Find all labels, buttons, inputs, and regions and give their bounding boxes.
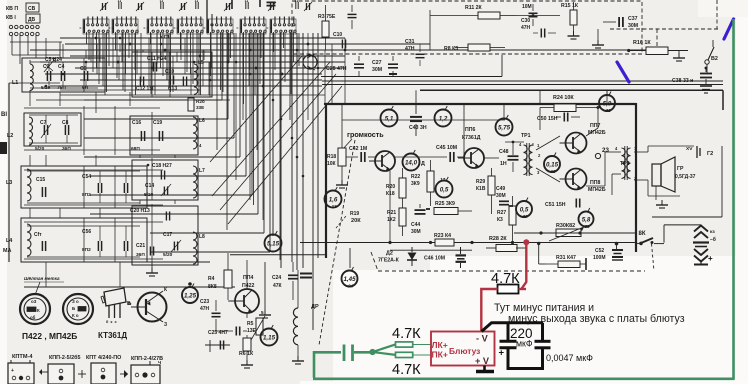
stray wire top of packages — [205, 344, 230, 346]
wires in dashed box — [430, 15, 460, 17]
wires to speaker — [634, 151, 648, 153]
svg-text:К о: К о — [72, 313, 79, 318]
red wire from R28 node — [522, 242, 527, 289]
svg-text:L3: L3 — [6, 180, 12, 186]
transistor symbol KT361D — [138, 293, 167, 322]
svg-text:3К9: 3К9 — [411, 181, 420, 187]
green resistor bottom 4.7K — [396, 352, 413, 357]
svg-text:КВ I: КВ I — [6, 15, 16, 21]
lower rail y255 extension — [230, 254, 326, 256]
measurement circle 1.2 — [435, 110, 452, 127]
svg-text:КПТ 4/240-ПО: КПТ 4/240-ПО — [86, 355, 121, 361]
svg-text:Ч: Ч — [158, 360, 161, 365]
svg-text:11: 11 — [160, 0, 164, 3]
measurement circle 5.8/25 — [579, 212, 594, 227]
svg-text:+: + — [11, 368, 14, 374]
svg-text:19: 19 — [550, 169, 556, 174]
svg-text:47Н: 47Н — [405, 46, 415, 52]
transistor PP6 — [464, 148, 484, 168]
bottom wire of RF section — [21, 261, 210, 263]
junction dots on buses — [95, 37, 98, 40]
electrolytic cap 220uF plates — [500, 340, 517, 343]
svg-text:20К: 20К — [351, 218, 361, 224]
svg-text:R11 2К: R11 2К — [465, 5, 483, 11]
svg-text:11: 11 — [195, 0, 199, 3]
svg-text:С4: С4 — [58, 64, 65, 70]
dashed lower border — [378, 270, 645, 272]
svg-text:С16: С16 — [132, 120, 141, 126]
measurement circle 0.5/20 — [516, 201, 532, 217]
svg-text:R6 1К: R6 1К — [239, 351, 254, 357]
wire bus to R31 — [537, 242, 540, 245]
wire y250 below box — [390, 249, 472, 251]
green lead bottom resistor to board — [413, 354, 431, 356]
capacitor C29 — [348, 13, 357, 15]
svg-text:С54: С54 — [82, 174, 91, 180]
svg-text:ЛК+: ЛК+ — [432, 340, 448, 350]
coil L8 — [193, 232, 197, 264]
svg-text:5,15: 5,15 — [267, 240, 280, 247]
band switch label SV box — [26, 3, 39, 12]
ground under speaker — [661, 200, 663, 205]
tuned circuit box L3 — [21, 166, 147, 208]
svg-text:С8: С8 — [62, 120, 69, 126]
junction dots below amp — [388, 241, 391, 244]
vertical trunk wires to converter stage — [272, 33, 274, 236]
extra density wires upper-left mesh — [90, 38, 92, 62]
ground under DR — [297, 356, 299, 361]
tuned circuit box L8 — [132, 206, 198, 265]
svg-text:С52: С52 — [595, 248, 604, 254]
svg-text:R30К82: R30К82 — [556, 223, 575, 229]
svg-text:С24: С24 — [272, 275, 281, 281]
wires in L4 box — [27, 225, 140, 227]
svg-text:мкФ: мкФ — [516, 339, 533, 349]
svg-text:С7: С7 — [40, 120, 47, 126]
green wire to resistor top — [373, 344, 396, 352]
transistor PP5 — [375, 151, 395, 171]
white margin left edge — [0, 0, 7, 384]
svg-text:30М: 30М — [372, 67, 382, 73]
svg-text:С14: С14 — [145, 183, 154, 189]
green resistor top 4.7K — [396, 342, 413, 347]
svg-text:С21: С21 — [136, 243, 145, 249]
svg-text:Г2: Г2 — [707, 151, 713, 157]
tuned circuit box L2 — [24, 113, 81, 146]
svg-text:30М: 30М — [496, 193, 506, 199]
svg-text:ХV: ХV — [686, 146, 693, 152]
svg-text:К: К — [37, 308, 40, 313]
ground under bluetooth board — [483, 366, 486, 371]
extra junction dots — [272, 99, 275, 102]
svg-text:R19: R19 — [350, 211, 359, 217]
transistor PP7 — [566, 133, 587, 154]
svg-text:R5: R5 — [247, 321, 254, 327]
svg-text:R21: R21 — [387, 210, 396, 216]
thick black right cap branch — [541, 323, 544, 342]
svg-text:11: 11 — [245, 0, 249, 3]
svg-text:С31: С31 — [405, 39, 415, 45]
ground under R6 — [246, 360, 248, 365]
band switch contact grid top-left — [9, 25, 12, 28]
amplifier inner wires — [342, 119, 505, 121]
wire row y287 — [24, 286, 235, 288]
amplifier board bold box right — [635, 103, 637, 252]
svg-text:Б: Б — [72, 306, 75, 311]
svg-text:С23: С23 — [200, 299, 209, 305]
measurement circle 14.0 — [403, 154, 420, 171]
arrow to pinout — [35, 282, 40, 295]
svg-text:100М: 100М — [593, 255, 606, 261]
svg-text:КВ П: КВ П — [6, 6, 18, 12]
svg-text:ПК+: ПК+ — [432, 350, 448, 360]
ground under R18 — [341, 180, 343, 185]
dashed wire segments top right — [610, 28, 718, 30]
svg-text:С15: С15 — [36, 177, 45, 183]
svg-text:С27: С27 — [372, 60, 382, 66]
svg-text:С42 1М: С42 1М — [349, 146, 367, 152]
svg-text:С30: С30 — [521, 18, 530, 24]
svg-text:4.7К: 4.7К — [392, 362, 421, 378]
left margin black tab — [0, 142, 7, 154]
svg-text:1,25: 1,25 — [184, 292, 197, 299]
coil L6 — [193, 117, 197, 149]
svg-text:С45 10М: С45 10М — [436, 145, 457, 151]
svg-text:кз: кз — [710, 230, 715, 235]
green wire to resistor bottom — [373, 352, 396, 355]
svg-text:+: + — [708, 254, 713, 263]
svg-text:С28 47Н: С28 47Н — [326, 66, 347, 72]
svg-text:Сfт: Сfт — [34, 232, 42, 238]
tuned circuit box L1 — [22, 58, 105, 92]
measurement circle 5.1 — [381, 110, 398, 127]
wires in L2 box — [29, 114, 78, 116]
svg-text:4.7К: 4.7К — [491, 271, 520, 287]
svg-text:8П2: 8П2 — [82, 192, 91, 198]
extra horizontal wires left column — [60, 94, 325, 96]
svg-text:К18: К18 — [386, 191, 395, 197]
svg-text:7ГЕ2А-К: 7ГЕ2А-К — [378, 258, 400, 264]
svg-text:1Н: 1Н — [500, 161, 507, 167]
svg-text:громкость: громкость — [347, 130, 384, 139]
blue marker stroke mid right — [617, 62, 629, 82]
wire from V2 to top — [712, 40, 714, 47]
svg-text:L4: L4 — [6, 238, 12, 244]
switch package 3 — [91, 363, 116, 384]
svg-text:L6: L6 — [199, 118, 205, 124]
svg-text:С56: С56 — [82, 229, 91, 235]
link marks between packages — [78, 373, 86, 375]
svg-text:11: 11 — [118, 0, 122, 3]
svg-text:КПП-2-5/2б5: КПП-2-5/2б5 — [49, 354, 80, 361]
svg-text:30М: 30М — [411, 229, 421, 235]
svg-text:33Е: 33Е — [196, 105, 204, 110]
svg-text:К1В: К1В — [476, 186, 486, 192]
svg-text:25: 25 — [583, 224, 590, 229]
capacitor C3 5/20 — [46, 71, 48, 81]
svg-text:Д: Д — [421, 161, 425, 167]
svg-text:ПП8: ПП8 — [590, 180, 600, 186]
svg-text:R23 К4: R23 К4 — [434, 233, 451, 239]
svg-text:ПП7: ПП7 — [590, 123, 600, 129]
coil L2 — [29, 117, 33, 145]
svg-text:8П2: 8П2 — [82, 247, 91, 253]
coil L3 — [27, 169, 31, 201]
pinout circle MP42B — [63, 294, 93, 324]
tuned circuit box L6 — [130, 116, 198, 155]
svg-text:L2: L2 — [7, 133, 13, 139]
switch package 1 — [8, 363, 34, 384]
svg-text:С6: С6 — [80, 66, 87, 72]
svg-text:–б: –б — [710, 236, 716, 243]
svg-text:36П: 36П — [62, 146, 71, 152]
bold wire y90 to output stage — [420, 89, 723, 91]
long wires into amplifier section — [321, 76, 502, 78]
bold stubs at top edge — [231, 0, 233, 9]
svg-text:П422: П422 — [242, 283, 254, 289]
svg-text:1,6: 1,6 — [329, 196, 338, 203]
amplifier board bold box left — [325, 103, 327, 258]
switch wafer groups (7) with contact rows — [83, 19, 109, 34]
ground right of R16 — [678, 51, 680, 54]
thick black left cap branch — [507, 323, 510, 342]
svg-text:б к э: б к э — [106, 320, 117, 324]
switch package 4 — [131, 365, 160, 384]
green lead top resistor to board — [413, 344, 431, 346]
svg-text:1,15: 1,15 — [263, 334, 276, 341]
switch V2 — [705, 60, 709, 64]
svg-text:47К: 47К — [273, 283, 283, 289]
svg-text:5,75: 5,75 — [498, 124, 511, 131]
svg-text:С20 Н13: С20 Н13 — [130, 208, 150, 214]
svg-text:R24 10К: R24 10К — [553, 95, 574, 101]
coil symbols above wafers — [118, 2, 120, 9]
svg-text:36П: 36П — [136, 252, 145, 258]
band switch label DV box — [26, 14, 40, 23]
svg-text:КТ361Д: КТ361Д — [98, 331, 127, 340]
cap 0.0047 plates — [535, 340, 551, 343]
measurement circle 5.9/21 — [599, 95, 615, 111]
wires in L1 box — [30, 61, 98, 63]
amplifier board bold box top — [324, 103, 636, 105]
svg-text:5,8: 5,8 — [582, 216, 591, 223]
tuned circuit box L7 — [132, 160, 198, 200]
svg-text:4.7К: 4.7К — [392, 326, 421, 342]
svg-text:R15 1К: R15 1К — [561, 3, 579, 9]
ground under R15 — [573, 31, 575, 36]
bus segment to switch — [636, 242, 641, 244]
trimmer symbols above wafers — [102, 3, 104, 10]
blue marker stroke top right — [724, 19, 734, 39]
svg-text:R31 К47: R31 К47 — [556, 255, 576, 261]
red node dot at R28 — [523, 239, 529, 245]
svg-text:- V: - V — [476, 334, 489, 344]
white margin right edge — [736, 0, 748, 384]
battery B1 symbol — [694, 226, 708, 232]
horizontal bus wires upper left — [60, 37, 345, 39]
output section lower rail — [652, 216, 722, 218]
svg-text:С10: С10 — [333, 32, 342, 38]
svg-text:ДВ: ДВ — [28, 17, 36, 23]
svg-text:ПП4: ПП4 — [243, 275, 253, 281]
svg-text:14,0: 14,0 — [405, 159, 418, 166]
thick black bottom wire — [507, 367, 545, 370]
svg-text:З о: З о — [72, 299, 79, 304]
capacitor C8 36P — [64, 125, 66, 135]
tuned circuit box L4 — [21, 218, 147, 262]
measurement circle 1.25 — [182, 287, 198, 303]
svg-text:10К: 10К — [327, 161, 337, 167]
green capacitor — [343, 345, 346, 362]
extra left column internal wires — [24, 107, 160, 109]
tuned circuit box L5 (IF) — [132, 52, 212, 97]
capacitor C6 — [83, 71, 85, 81]
svg-text:68П: 68П — [131, 146, 140, 152]
arrow from gromkost — [342, 139, 352, 150]
svg-text:13: 13 — [331, 204, 337, 209]
wire to measurement 1.45 — [349, 248, 351, 268]
svg-text:0,15: 0,15 — [546, 161, 559, 168]
detector stage transistor circle — [303, 55, 317, 69]
coil L5 — [194, 64, 198, 94]
svg-text:0,0047 мкФ: 0,0047 мкФ — [546, 353, 593, 363]
measurement circle 5.15 — [265, 235, 282, 252]
measurement circle 0.15/19 — [544, 156, 560, 172]
svg-text:К7361Д: К7361Д — [462, 135, 481, 141]
svg-text:х Г1: х Г1 — [160, 34, 170, 40]
diagonal wires from wafer bank — [212, 62, 330, 196]
svg-text:С49: С49 — [496, 186, 505, 192]
green line bottom edge — [313, 377, 735, 380]
svg-text:R4: R4 — [208, 276, 215, 282]
bluetooth board red box — [431, 332, 495, 366]
svg-text:L8: L8 — [199, 234, 205, 240]
svg-text:С44: С44 — [411, 222, 420, 228]
svg-text:С11 Н24: С11 Н24 — [147, 56, 167, 62]
svg-text:R27: R27 — [497, 210, 506, 216]
svg-text:Шёлтая метка: Шёлтая метка — [24, 276, 60, 281]
svg-text:5/20: 5/20 — [35, 146, 45, 152]
svg-text:ПП6: ПП6 — [465, 127, 475, 133]
svg-text:47Н: 47Н — [200, 306, 210, 312]
svg-text:МА: МА — [3, 248, 11, 254]
svg-text:С37: С37 — [628, 16, 638, 22]
wire drops from switch wafers — [86, 32, 88, 44]
svg-text:С38 33 н: С38 33 н — [672, 78, 693, 84]
svg-text:СВ: СВ — [28, 6, 36, 12]
resistor 4.7K inline (black box) — [498, 285, 519, 294]
dashed link from switch — [652, 244, 655, 271]
svg-text:R16 1К: R16 1К — [633, 40, 651, 46]
measurement circle 5.75 — [496, 119, 513, 136]
svg-text:10М: 10М — [522, 4, 532, 10]
green line right edge — [732, 19, 735, 380]
svg-text:+ V: + V — [475, 356, 490, 366]
svg-text:Блютуз: Блютуз — [449, 346, 480, 356]
svg-text:5: 5 — [261, 310, 264, 315]
svg-text:ДР: ДР — [311, 304, 319, 310]
svg-text:ВI: ВI — [1, 112, 7, 118]
svg-text:С43 3Н: С43 3Н — [409, 125, 427, 131]
ground mid RF — [151, 262, 153, 268]
bold wire right edge x723 — [722, 90, 724, 110]
dashed mechanical link volume shaft — [319, 140, 355, 345]
capacitor C37 30M — [618, 17, 620, 27]
green wire from ground loop — [314, 352, 341, 378]
svg-text:К3: К3 — [497, 217, 503, 223]
svg-text:С46 10М: С46 10М — [424, 256, 445, 262]
green wire cap to node — [354, 351, 373, 354]
extra mesh verticals mid column — [235, 33, 237, 180]
svg-text:1К2: 1К2 — [387, 217, 396, 223]
wire bus y233 — [514, 232, 636, 234]
ground near C37 — [597, 29, 599, 40]
svg-text:оЗ: оЗ — [31, 299, 37, 304]
svg-text:КПТМ-4: КПТМ-4 — [12, 354, 33, 360]
svg-text:R3 75Е: R3 75Е — [318, 14, 336, 20]
wires in L3 box — [27, 170, 140, 172]
extra contact drop wires — [88, 33, 90, 60]
svg-text:1,2: 1,2 — [439, 115, 448, 122]
capacitor C4 75P — [60, 71, 62, 81]
coil L7 — [193, 166, 197, 198]
svg-text:R2б: R2б — [196, 98, 205, 104]
svg-text:Д2: Д2 — [386, 251, 393, 257]
svg-text:0,5: 0,5 — [440, 186, 449, 193]
measurement circle 1.15 — [261, 329, 278, 346]
dashed box detector section — [292, 1, 642, 54]
coil L4 — [27, 224, 31, 256]
svg-text:24: 24 — [347, 283, 354, 288]
svg-text:Б: Б — [127, 301, 131, 307]
svg-text:С48: С48 — [499, 149, 509, 155]
nested bracket wires to mixer — [84, 99, 222, 101]
svg-text:R25 3К9: R25 3К9 — [435, 201, 455, 207]
left margin vertical wire — [8, 83, 10, 262]
extra wires above amplifier — [341, 104, 343, 120]
svg-text:23: 23 — [602, 147, 609, 154]
measurement circle 1.6/13 — [325, 191, 342, 208]
ground under L8 — [264, 262, 266, 310]
svg-text:0,5ГД-37: 0,5ГД-37 — [675, 174, 696, 180]
svg-text:R18: R18 — [327, 154, 336, 160]
bold divider top strip — [206, 0, 208, 33]
switch package 2 — [48, 364, 74, 384]
svg-text:С51 15Н: С51 15Н — [545, 202, 566, 208]
thick black wire board to caps — [482, 323, 544, 332]
svg-text:об: об — [30, 315, 36, 320]
svg-text:47Н: 47Н — [521, 25, 531, 31]
wire bus y242 — [300, 242, 636, 244]
svg-text:+: + — [499, 348, 505, 359]
battery wires — [663, 225, 665, 243]
svg-text:R22: R22 — [411, 174, 420, 180]
trimmer arrow L1 — [44, 60, 54, 72]
svg-text:5,1: 5,1 — [385, 115, 394, 122]
svg-text:30М: 30М — [628, 23, 638, 29]
svg-text:С12 15П: С12 15П — [136, 86, 156, 92]
ground under C38 — [700, 85, 712, 87]
svg-text:R28 2К: R28 2К — [489, 236, 507, 242]
svg-text:21: 21 — [604, 108, 611, 113]
green node dot — [369, 349, 375, 355]
svg-text:20: 20 — [521, 214, 528, 219]
capacitor C7 5/20 — [43, 125, 45, 135]
bold tick marks left — [300, 273, 312, 275]
svg-text:С19: С19 — [153, 120, 162, 126]
measurement circle 1.45/24 — [342, 271, 358, 287]
wires PP4 stage — [246, 313, 248, 318]
